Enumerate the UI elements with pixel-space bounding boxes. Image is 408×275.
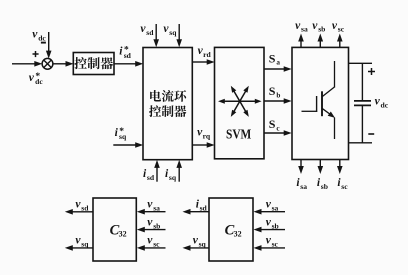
wire: phase current isa (down arrow) bbox=[300, 160, 302, 168]
block: C32 transform (voltage) bbox=[93, 198, 136, 261]
wire: vsq feedforward into current-loop (top stub) bbox=[178, 24, 180, 40]
svg-text:sc: sc bbox=[272, 240, 279, 249]
svg-text:sc: sc bbox=[338, 25, 345, 34]
wire: vsb input into C32 (current) bbox=[261, 229, 286, 231]
block: SVM modulator bbox=[215, 47, 265, 158]
wire: controller output i*sd to current-loop controller bbox=[114, 63, 136, 65]
wire: isq feedback into current-loop (bottom stub) bbox=[178, 167, 180, 182]
wire: vdc feedback arrow into summing junction bbox=[48, 32, 50, 52]
block: current loop controller bbox=[143, 48, 192, 160]
text dian (current char 1) bbox=[150, 90, 161, 101]
wire: inverter output vsc (up arrow) bbox=[339, 41, 341, 48]
svg-text:sb: sb bbox=[153, 222, 160, 231]
svg-text:sd: sd bbox=[124, 51, 132, 60]
svg-text:sq: sq bbox=[169, 173, 177, 182]
wire: vsd feedforward into current-loop (top stub) bbox=[155, 24, 157, 40]
block: voltage controller (kong-zhi-qi) bbox=[73, 53, 114, 75]
svg-text:sd: sd bbox=[200, 203, 208, 212]
plus sign at dc-link bbox=[368, 71, 375, 73]
wire: dc-link bottom rail bbox=[349, 142, 373, 144]
wire: isd output of C32 (left arrow) bbox=[190, 211, 210, 213]
svg-text:b: b bbox=[276, 91, 280, 99]
svg-text:rd: rd bbox=[203, 50, 211, 59]
wire: vsa input into C32 (voltage) bbox=[144, 211, 166, 213]
wire: reference input to summing junction bbox=[12, 63, 35, 65]
capacitor Cdc plates bbox=[354, 100, 371, 102]
svg-text:SVM: SVM bbox=[226, 128, 251, 143]
wire: vrd from current-loop to SVM bbox=[192, 61, 207, 63]
svg-text:S: S bbox=[269, 84, 276, 98]
svg-text:sq: sq bbox=[81, 240, 89, 249]
svg-text:sq: sq bbox=[119, 132, 127, 141]
wire: inverter output vsa (up arrow) bbox=[300, 41, 302, 48]
svg-text:sa: sa bbox=[272, 203, 279, 212]
svg-text:sc: sc bbox=[341, 182, 348, 191]
svg-text:dc: dc bbox=[35, 77, 43, 86]
text kong (controller char 1) bbox=[74, 57, 87, 69]
svg-text:sa: sa bbox=[153, 203, 160, 212]
capacitor Cdc top lead bbox=[361, 63, 363, 101]
minus sign at summing junction bbox=[41, 42, 46, 44]
svg-text:S: S bbox=[269, 117, 276, 131]
IGBT switch symbol inside inverter bbox=[334, 61, 336, 87]
text qi (controller2 char 3) bbox=[174, 105, 186, 117]
text liu (current char 2) bbox=[162, 90, 174, 102]
wire: vsd output of C32 (left arrow) bbox=[72, 211, 93, 213]
plus sign at summing junction bbox=[33, 53, 39, 55]
svg-text:sa: sa bbox=[301, 25, 308, 34]
block: C32 transform (current) bbox=[209, 198, 253, 261]
wire: vsb input into C32 (voltage) bbox=[144, 229, 166, 231]
wire: vsa input into C32 (current) bbox=[261, 211, 286, 213]
svg-text:sq: sq bbox=[199, 240, 207, 249]
wire: vsc input into C32 (voltage) bbox=[144, 247, 166, 249]
svg-text:sd: sd bbox=[146, 28, 154, 37]
text huan (loop char) bbox=[174, 90, 186, 102]
svg-text:32: 32 bbox=[234, 230, 242, 239]
SVM space-vector star (six arrows) bbox=[240, 100, 257, 102]
wire: vsc input into C32 (current) bbox=[261, 247, 286, 249]
svg-text:sa: sa bbox=[300, 182, 307, 191]
text zhi (controller2 char 2) bbox=[162, 105, 174, 117]
wire: vsq output of C32 current block (left arrow) bbox=[190, 247, 210, 249]
text kong (controller2 char 1) bbox=[149, 105, 161, 117]
svg-text:v: v bbox=[29, 72, 35, 84]
wire: vrq from current-loop to SVM bbox=[192, 144, 207, 146]
block: PWM inverter bridge bbox=[292, 47, 349, 159]
svg-text:sc: sc bbox=[153, 240, 160, 249]
svg-text:dc: dc bbox=[381, 100, 389, 109]
text qi (controller char 3) bbox=[101, 57, 113, 69]
svg-text:i: i bbox=[115, 127, 119, 139]
svg-text:i: i bbox=[119, 46, 123, 58]
svg-text:dc: dc bbox=[38, 33, 46, 42]
wire: gate signal Sb to inverter bbox=[264, 100, 285, 102]
svg-text:S: S bbox=[269, 51, 276, 65]
wire: dc-link top rail bbox=[349, 62, 373, 64]
svg-text:sb: sb bbox=[321, 182, 328, 191]
svg-text:sb: sb bbox=[318, 25, 325, 34]
wire: vsq output of C32 (left arrow) bbox=[72, 247, 93, 249]
minus sign at dc-link bbox=[368, 133, 374, 135]
wire: gate signal Sc to inverter bbox=[264, 132, 285, 134]
capacitor Cdc bottom lead bbox=[361, 105, 363, 142]
wire: phase current isc (down arrow) bbox=[339, 160, 341, 168]
svg-text:sb: sb bbox=[272, 222, 279, 231]
svg-text:sq: sq bbox=[169, 28, 177, 37]
svg-text:32: 32 bbox=[119, 230, 127, 239]
svg-text:rq: rq bbox=[203, 132, 211, 141]
svg-text:a: a bbox=[276, 59, 280, 67]
svg-text:sd: sd bbox=[81, 203, 89, 212]
wire: i*sq input to current-loop controller bbox=[113, 144, 136, 146]
wire: isd feedback into current-loop (bottom stub) bbox=[156, 167, 158, 182]
wire: gate signal Sa to inverter bbox=[264, 68, 285, 70]
summing junction X1 bbox=[42, 58, 53, 69]
text zhi (controller char 2) bbox=[88, 57, 100, 69]
svg-text:c: c bbox=[276, 124, 280, 132]
wire: summing junction to controller bbox=[53, 63, 67, 65]
wire: inverter output vsb (up arrow) bbox=[319, 41, 321, 48]
svg-text:sd: sd bbox=[147, 173, 155, 182]
wire: phase current isb (down arrow) bbox=[319, 160, 321, 168]
